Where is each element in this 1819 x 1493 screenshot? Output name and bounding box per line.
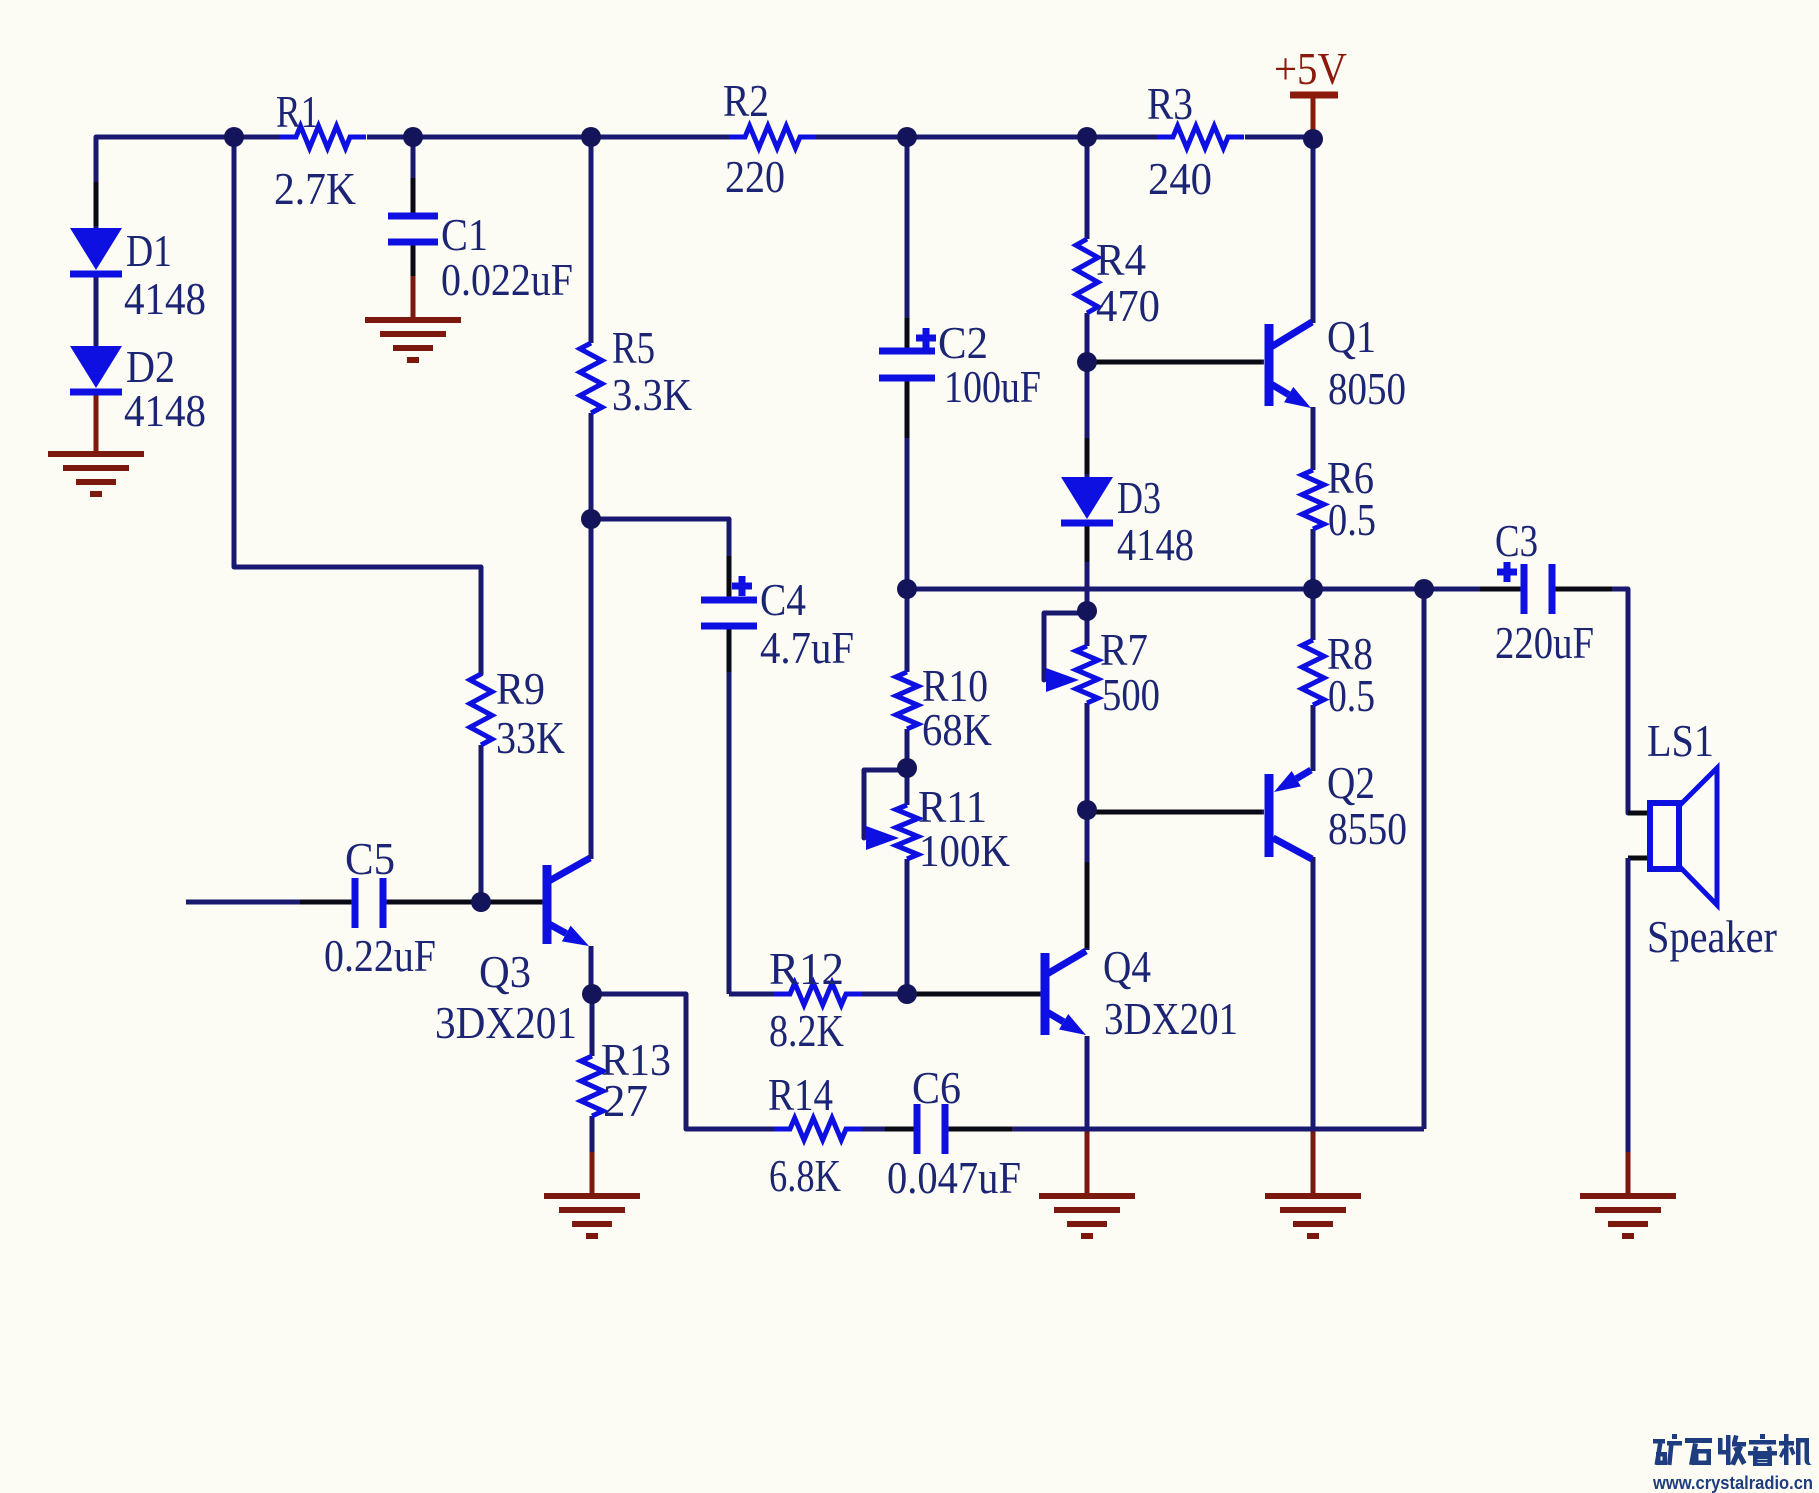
diode D3 xyxy=(1061,477,1113,523)
label Q3 xyxy=(479,946,531,997)
svg-text:R12: R12 xyxy=(769,943,844,994)
resistor R9 xyxy=(470,674,492,745)
transistor Q4 collector diagonal xyxy=(1047,951,1086,974)
svg-text:C4: C4 xyxy=(760,574,806,625)
wire mid junction to R10 top xyxy=(905,589,910,672)
ground under R13 xyxy=(544,1196,640,1236)
label R11 xyxy=(918,781,987,832)
potentiometer R7 wiper bracket xyxy=(1044,613,1085,680)
wire R12 right to Q4 base bar xyxy=(860,992,1041,997)
wire Q4 base pin black segment xyxy=(915,992,1040,997)
value Q2 8550 xyxy=(1328,803,1407,854)
svg-text:100K: 100K xyxy=(919,825,1010,876)
wire D1 anode pin black segment xyxy=(94,182,99,226)
wire R12 left lead from C4 line xyxy=(729,992,776,997)
wire Q3 base horizontal xyxy=(481,900,544,905)
label LS1 xyxy=(1647,715,1714,766)
svg-text:8.2K: 8.2K xyxy=(769,1005,844,1056)
junction node Q3 emitter / R13 xyxy=(582,984,602,1004)
svg-text:4.7uF: 4.7uF xyxy=(760,622,854,673)
svg-text:www.crystalradio.cn: www.crystalradio.cn xyxy=(1652,1473,1813,1493)
ground under speaker xyxy=(1580,1196,1676,1236)
wire emitter junction over and down to bottom rail xyxy=(592,994,777,1129)
resistor R1 xyxy=(280,126,366,148)
svg-text:4148: 4148 xyxy=(124,273,206,324)
svg-text:0.5: 0.5 xyxy=(1328,670,1375,721)
capacitor C2 plates xyxy=(879,351,935,378)
svg-text:R9: R9 xyxy=(496,663,545,714)
resistor R14 xyxy=(774,1118,862,1140)
wire Q1 base pin black segment xyxy=(1092,360,1262,365)
capacitor C5 plates xyxy=(355,878,383,928)
svg-text:C6: C6 xyxy=(912,1062,961,1113)
wire Q2 base pin black segment xyxy=(1092,810,1262,815)
svg-text:R5: R5 xyxy=(612,322,655,373)
wire C6 left pin black segment xyxy=(885,1127,915,1132)
label D1 xyxy=(126,225,172,276)
wire mid horizontal rail (output node) xyxy=(907,587,1424,592)
watermark Chinese logo: kuang shi shou yin ji xyxy=(1653,1434,1812,1466)
capacitor C3 plates xyxy=(1524,564,1552,614)
label R4 xyxy=(1096,234,1146,285)
wire Q3 base pin black segment xyxy=(486,900,542,905)
wire mid rail to R7 junction and R7 top xyxy=(1085,589,1090,646)
junction node R1 left xyxy=(224,127,244,147)
label Q1 xyxy=(1327,311,1376,362)
svg-text:C3: C3 xyxy=(1495,515,1538,566)
svg-text:R1: R1 xyxy=(276,86,319,137)
label R6 xyxy=(1327,452,1374,503)
wire R4 bottom to Q1 base junction xyxy=(1085,313,1090,362)
label R12 xyxy=(769,943,844,994)
label R8 xyxy=(1327,628,1373,679)
wire junction to C4 top corner xyxy=(591,519,729,600)
label R13 xyxy=(601,1034,671,1085)
svg-text:R3: R3 xyxy=(1147,78,1193,129)
junction node R7 wiper xyxy=(1077,601,1097,621)
value R8 0.5 xyxy=(1328,670,1375,721)
capacitor C4 plates xyxy=(701,600,757,626)
wire Q4 emitter to ground (maroon) xyxy=(1085,1130,1090,1196)
wire left branch down to D1 xyxy=(94,137,99,228)
junction node R12 / R11 / Q4 base xyxy=(897,984,917,1004)
svg-text:0.022uF: 0.022uF xyxy=(441,254,573,305)
transistor Q1 emitter arrow xyxy=(1271,384,1311,408)
value Q1 8050 xyxy=(1328,363,1406,414)
svg-text:3.3K: 3.3K xyxy=(612,369,692,420)
potentiometer R7 wiper arrow xyxy=(1046,668,1079,692)
wire +5V node down to Q1 collector xyxy=(1311,139,1316,323)
transistor Q2 emitter arrow (PNP) xyxy=(1274,770,1311,792)
wire C5 right pin black segment xyxy=(387,900,476,905)
svg-text:0.22uF: 0.22uF xyxy=(324,930,436,981)
speaker LS1 symbol xyxy=(1650,768,1717,905)
resistor R3 xyxy=(1157,126,1244,148)
resistor R4 xyxy=(1076,239,1098,313)
value C2 100uF xyxy=(944,361,1041,412)
svg-text:D3: D3 xyxy=(1117,472,1161,523)
wire C3 left pin black segment xyxy=(1480,587,1520,592)
value R2 220 xyxy=(725,151,785,202)
label D2 xyxy=(126,341,175,392)
value R4 470 xyxy=(1096,280,1160,331)
wire C6 right pin black segment xyxy=(949,1127,1012,1132)
wire R5 bottom to collector junction xyxy=(589,413,594,519)
label C2 xyxy=(938,317,988,368)
svg-text:27: 27 xyxy=(603,1075,648,1126)
label C3 xyxy=(1495,515,1538,566)
svg-text:R2: R2 xyxy=(723,75,769,126)
ground under Q4 emitter xyxy=(1039,1196,1135,1236)
wire R4 node down to R4 top xyxy=(1085,137,1090,239)
ground under Q2 collector xyxy=(1265,1196,1361,1236)
label R3 xyxy=(1147,78,1193,129)
label R10 xyxy=(922,660,988,711)
svg-text:68K: 68K xyxy=(922,704,992,755)
wire C4 bottom plate down to R12 line xyxy=(727,625,732,994)
svg-text:240: 240 xyxy=(1148,153,1212,204)
svg-text:4148: 4148 xyxy=(124,385,206,436)
label Q4 xyxy=(1103,941,1151,992)
label Q2 xyxy=(1327,757,1375,808)
label R1 xyxy=(276,86,319,137)
potentiometer R11 wiper bracket xyxy=(864,770,905,838)
svg-text:100uF: 100uF xyxy=(944,361,1041,412)
resistor R5 xyxy=(580,343,602,413)
junction node C1 top xyxy=(403,127,423,147)
wire C1 node down to C1 top plate xyxy=(411,137,416,216)
svg-text:C5: C5 xyxy=(345,833,395,884)
wire C2 bottom plate to mid-rail junction xyxy=(905,378,910,589)
wire Q2 collector line to ground (maroon) xyxy=(1311,1130,1316,1196)
potentiometer R11 wiper arrow xyxy=(866,826,899,850)
value Q4 3DX201 xyxy=(1104,993,1238,1044)
wire R10 bottom to R11 wiper junction xyxy=(905,729,910,768)
svg-text:0.047uF: 0.047uF xyxy=(887,1152,1021,1203)
wire D3 cathode down to mid rail xyxy=(1085,521,1090,589)
resistor R10 xyxy=(896,672,918,729)
junction node R5 bottom / Q3 collector xyxy=(581,509,601,529)
wire C5 right plate to base junction xyxy=(385,900,481,905)
svg-text:C1: C1 xyxy=(441,209,488,260)
svg-text:D1: D1 xyxy=(126,225,172,276)
wire C3 right plate to speaker corner xyxy=(1554,589,1628,813)
junction node R4 top xyxy=(1077,127,1097,147)
capacitor C6 plates xyxy=(917,1104,945,1154)
power +5V symbol xyxy=(1290,95,1338,140)
resistor R2 xyxy=(729,126,816,148)
value R5 3.3K xyxy=(612,369,692,420)
value D3 4148 xyxy=(1117,519,1194,570)
value R10 68K xyxy=(922,704,992,755)
svg-text:Q3: Q3 xyxy=(479,946,531,997)
svg-text:+5V: +5V xyxy=(1274,43,1347,94)
wire Q3 emitter down to emitter junction xyxy=(589,946,594,994)
wire C2 top pin black segment xyxy=(905,318,910,349)
svg-text:8550: 8550 xyxy=(1328,803,1407,854)
wire speaker bottom down to ground xyxy=(1626,858,1631,1154)
transistor Q2 base bar xyxy=(1265,774,1274,857)
label C5 xyxy=(345,833,395,884)
wire bottom rail R14 to C6 xyxy=(859,1127,919,1132)
svg-text:220uF: 220uF xyxy=(1495,617,1594,668)
value Q3 3DX201 xyxy=(435,997,577,1048)
svg-text:33K: 33K xyxy=(496,712,565,763)
wire C1 bottom plate down (black then maroon to ground) xyxy=(411,242,416,278)
wire Q1 base horizontal xyxy=(1087,360,1264,365)
resistor R12 xyxy=(774,983,862,1005)
junction node R5 top xyxy=(581,127,601,147)
value D2 4148 xyxy=(124,385,206,436)
value C6 0.047uF xyxy=(887,1152,1021,1203)
wire C2 bottom pin black segment xyxy=(905,380,910,438)
resistor R6 xyxy=(1302,470,1324,529)
wire output junction to R8 top xyxy=(1311,589,1316,640)
wire right riser up to output rail xyxy=(1422,589,1427,1129)
wire Q4 emitter down to bottom rail xyxy=(1085,1036,1090,1130)
resistor R8 xyxy=(1302,640,1324,705)
capacitor C1 plates xyxy=(388,216,438,242)
wire speaker bottom terminal stub xyxy=(1628,856,1650,861)
capacitor C3 plus sign xyxy=(1497,562,1517,582)
power +5V label xyxy=(1274,43,1347,94)
value R13 27 xyxy=(603,1075,648,1126)
wire input line to C5 xyxy=(186,900,353,905)
value R12 8.2K xyxy=(769,1005,844,1056)
transistor Q1 collector diagonal xyxy=(1271,322,1312,347)
wire speaker ground stub (maroon) xyxy=(1626,1152,1631,1196)
label Speaker xyxy=(1647,911,1777,962)
value D1 4148 xyxy=(124,273,206,324)
transistor Q3 emitter arrow xyxy=(549,924,589,946)
junction node C3 / feedback riser xyxy=(1414,579,1434,599)
watermark URL www.crystalradio.cn xyxy=(1652,1473,1813,1493)
value C5 0.22uF xyxy=(324,930,436,981)
label R5 xyxy=(612,322,655,373)
wire Q2 base junction down to Q4 collector xyxy=(1085,810,1090,950)
wire R6 bottom to output rail junction xyxy=(1311,529,1316,589)
wire node R1-left down and over to R9 xyxy=(234,137,481,674)
wire output junction to C3 left plate xyxy=(1424,587,1522,592)
svg-text:500: 500 xyxy=(1102,669,1160,720)
potentiometer R7 body xyxy=(1076,646,1098,703)
svg-text:470: 470 xyxy=(1096,280,1160,331)
svg-text:Speaker: Speaker xyxy=(1647,911,1777,962)
wire Q3 collector vertical up to junction xyxy=(589,519,594,859)
wire Q4 collector pin black segment xyxy=(1085,862,1090,948)
wire C4 top pin black segment xyxy=(727,556,732,596)
svg-text:2.7K: 2.7K xyxy=(274,163,356,214)
junction node +5V xyxy=(1303,129,1323,149)
wire R13 top lead xyxy=(590,994,595,1056)
transistor Q3 collector diagonal xyxy=(549,858,590,881)
svg-text:LS1: LS1 xyxy=(1647,715,1714,766)
junction node Q1 base / R4 / D3 xyxy=(1077,352,1097,372)
potentiometer R11 body xyxy=(896,805,918,859)
svg-text:0.5: 0.5 xyxy=(1328,494,1376,545)
wire R13 bottom (navy then maroon to ground) xyxy=(590,1116,595,1154)
svg-text:Q4: Q4 xyxy=(1103,941,1151,992)
wire Q2 collector down to bottom rail xyxy=(1311,857,1316,1130)
label C6 xyxy=(912,1062,961,1113)
transistor Q2 collector diagonal xyxy=(1273,838,1312,859)
value R14 6.8K xyxy=(769,1150,841,1201)
capacitor C2 plus sign xyxy=(916,328,936,348)
wire R11 junction to R11 body top xyxy=(905,768,910,805)
junction node C2 top xyxy=(897,127,917,147)
capacitor C4 plus sign xyxy=(732,576,752,596)
wire Q1 emitter down to R6 top xyxy=(1311,407,1316,470)
value R9 33K xyxy=(496,712,565,763)
svg-text:Q1: Q1 xyxy=(1327,311,1376,362)
transistor Q4 emitter arrow xyxy=(1047,1012,1086,1035)
label C1 xyxy=(441,209,488,260)
wire Q2 base horizontal xyxy=(1087,810,1264,815)
wire Q1 base junction down to D3 xyxy=(1085,362,1090,477)
wire top rail R1 to R2 (through C1 and R5 nodes) xyxy=(367,135,730,140)
junction node R11 wiper xyxy=(897,758,917,778)
wire D3 bottom pin black segment xyxy=(1085,523,1090,562)
wire D2 cathode to ground (maroon) xyxy=(94,390,99,454)
diode D1 xyxy=(70,228,122,274)
transistor Q4 base bar xyxy=(1041,953,1050,1035)
wire bottom rail C6 to right riser xyxy=(947,1127,1424,1132)
wire R8 bottom to Q2 emitter xyxy=(1311,705,1316,771)
wire top rail R3 to +5V node xyxy=(1245,135,1313,140)
wire D3 top pin black segment xyxy=(1085,438,1090,474)
svg-text:3DX201: 3DX201 xyxy=(1104,993,1238,1044)
value R7 500 xyxy=(1102,669,1160,720)
svg-text:6.8K: 6.8K xyxy=(769,1150,841,1201)
junction node C5 / Q3 base xyxy=(471,892,491,912)
value R11 100K xyxy=(919,825,1010,876)
value C1 0.022uF xyxy=(441,254,573,305)
value C3 220uF xyxy=(1495,617,1594,668)
junction node R6/R8 output xyxy=(1303,579,1323,599)
svg-text:8050: 8050 xyxy=(1328,363,1406,414)
label R2 xyxy=(723,75,769,126)
junction node Q2 base / R7 / Q4 collector xyxy=(1077,800,1097,820)
svg-text:R14: R14 xyxy=(768,1069,833,1120)
value R6 0.5 xyxy=(1328,494,1376,545)
wire top rail left segment (D1 node to R1) xyxy=(96,135,283,140)
wire top rail R2 to R3 (through C2 and R4 nodes) xyxy=(816,135,1157,140)
wire R11 bottom to R12 junction xyxy=(905,859,910,994)
value R3 240 xyxy=(1148,153,1212,204)
transistor Q3 base bar xyxy=(543,865,552,944)
wire R9 bottom to C5/base junction xyxy=(479,745,484,902)
ground under D2 xyxy=(48,454,144,494)
wire between D1 and D2 xyxy=(94,272,99,346)
value C4 4.7uF xyxy=(760,622,854,673)
label R14 xyxy=(768,1069,833,1120)
junction node C2 bottom / R10 xyxy=(897,579,917,599)
wire R5 node down to R5 top xyxy=(589,137,594,343)
wire C5 left pin black segment xyxy=(300,900,351,905)
svg-text:3DX201: 3DX201 xyxy=(435,997,577,1048)
wire C4 bottom pin black segment xyxy=(727,627,732,672)
diode D2 xyxy=(70,346,122,392)
svg-text:Q2: Q2 xyxy=(1327,757,1375,808)
transistor Q1 base bar xyxy=(1265,324,1274,406)
wire C1 top pin black segment xyxy=(411,178,416,214)
svg-text:R4: R4 xyxy=(1096,234,1146,285)
ground under C1 xyxy=(365,320,461,360)
label R7 xyxy=(1100,624,1148,675)
svg-text:R7: R7 xyxy=(1100,624,1148,675)
label D3 xyxy=(1117,472,1161,523)
value R1 2.7K xyxy=(274,163,356,214)
label C4 xyxy=(760,574,806,625)
wire C2 node down to C2 top plate xyxy=(905,137,910,351)
svg-text:4148: 4148 xyxy=(1117,519,1194,570)
wire speaker top terminal stub xyxy=(1628,811,1650,816)
wire R7 bottom to Q2 base junction xyxy=(1085,703,1090,810)
label R9 xyxy=(496,663,545,714)
resistor R13 xyxy=(581,1056,603,1116)
svg-text:220: 220 xyxy=(725,151,785,202)
wire C3 right pin black segment xyxy=(1556,587,1612,592)
